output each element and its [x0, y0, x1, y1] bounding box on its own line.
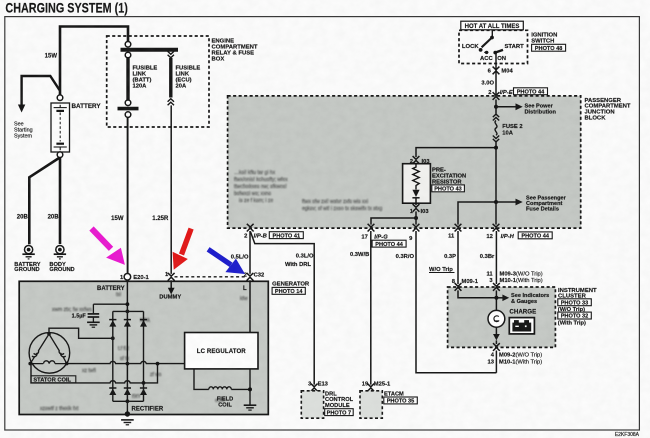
- charge warning lamp: [488, 310, 505, 327]
- label PHOTO 43: [432, 185, 465, 193]
- stator delta winding: [30, 334, 66, 364]
- pin 9: [413, 224, 420, 232]
- connector 2 C32: [247, 273, 254, 281]
- instrument cluster shaded panel: [448, 287, 556, 347]
- wire battery positive to fuse box (15W): [60, 27, 128, 96]
- diode D1 top col1: [109, 320, 116, 327]
- label PHOTO 7: [325, 409, 354, 417]
- dashed connector line between dummy pin and C32: [175, 276, 247, 278]
- wire fuse to lower node: [495, 142, 497, 202]
- rectifier top bus: [113, 310, 144, 312]
- battery top terminal circle: [57, 95, 63, 101]
- battery B1: [51, 103, 70, 152]
- label FUSE 2 10A: [502, 124, 522, 136]
- connector 19 M25-1: [367, 384, 374, 392]
- battery bottom terminal circle: [57, 152, 63, 158]
- connector 1 E20-1: [124, 274, 131, 281]
- wire 0.3R/O pin 9 to cluster return: [416, 231, 496, 373]
- label ENGINE COMPARTMENT RELAY & FUSE BOX: [212, 38, 258, 62]
- pin 11: [455, 224, 462, 232]
- ghost bleed-through text in generator panel: [40, 292, 248, 412]
- label INSTRUMENT CLUSTER: [558, 288, 597, 300]
- wire ignition switch output 3.0O: [495, 53, 497, 96]
- diode D3 top col3: [140, 320, 147, 327]
- rectifier column 3: [143, 311, 145, 401]
- pin 2 I/P-E entering junction block: [493, 92, 500, 100]
- stator coil circle: [29, 333, 70, 374]
- wire battery negative to body ground (20B): [59, 157, 62, 244]
- wire 0.3Br pin 12 to M09-3: [495, 231, 497, 284]
- ignition switch dashed box: [459, 30, 528, 63]
- ghost bleed-through text in junction block: [234, 109, 431, 212]
- capacitor C1 1.5uF: [88, 304, 100, 322]
- label See Power Distribution: [525, 104, 557, 116]
- lower terminal circle: [125, 112, 131, 118]
- field coil wires: [194, 369, 209, 390]
- terminal circle below bus bar: [125, 52, 131, 58]
- stator vertex nodes: [47, 332, 51, 336]
- label PHOTO 33: [558, 299, 592, 307]
- label PHOTO 14: [272, 287, 305, 295]
- ignition switch S1: [479, 30, 503, 55]
- node after fuse: [494, 146, 498, 150]
- fuse 2 holder bottom chevrons: [493, 136, 499, 139]
- rectifier bottom bus: [113, 400, 144, 402]
- wire resistor output node: [415, 211, 417, 224]
- wire lamp to output pin: [495, 327, 497, 335]
- label PRE-EXCITATION RESISTOR: [432, 167, 466, 185]
- label STATOR COIL boxed: [31, 376, 76, 383]
- generator shaded panel: [19, 281, 268, 414]
- node capacitor tap: [126, 302, 130, 306]
- magenta callout arrow: [92, 229, 125, 265]
- rectifier column 1: [112, 311, 114, 401]
- lamp filament: [494, 316, 499, 322]
- wire 1.25R to generator dummy pin: [170, 105, 172, 274]
- arrow see power distribution: [496, 106, 517, 108]
- phase B wire to col2 and regulator: [67, 361, 185, 363]
- fusible link (BATT) 120A: [126, 58, 129, 101]
- diode in resistor branch (pointing down): [412, 190, 419, 197]
- label PHOTO 35: [384, 397, 418, 405]
- body ground symbol: [54, 246, 66, 259]
- label BATTERY GROUND: [14, 262, 40, 273]
- dummy terminal arrow: [170, 280, 172, 288]
- label FUSIBLE LINK (BATT) 120A: [133, 66, 158, 90]
- battery warning icon: [509, 318, 534, 334]
- wire battery negative to battery ground (20B): [29, 158, 59, 244]
- label PHOTO 44 (I/P-G): [372, 240, 406, 248]
- label See Passenger Compartment Fuse Details: [526, 195, 567, 212]
- wire to I/P-G pin 17: [371, 218, 416, 225]
- HOT AT ALL TIMES box: [461, 21, 524, 30]
- label DRL CONTROL MODULE: [325, 391, 354, 409]
- battery ground symbol: [22, 246, 34, 259]
- connector 8 M09-1: [455, 283, 462, 291]
- wire 0.3P pin 11 to M09-1: [457, 231, 459, 284]
- label PHOTO 41: [269, 232, 303, 240]
- wire 0.3P inside cluster: [458, 290, 496, 297]
- generator box: [19, 281, 268, 414]
- fuse box terminal circle top: [125, 42, 131, 48]
- pin 12 I/P-H: [493, 224, 500, 232]
- dummy pin 1: [168, 273, 175, 281]
- label BODY GROUND: [49, 262, 74, 273]
- main feed wire inside block: [495, 100, 497, 114]
- pin 2 I/P-B: [247, 224, 254, 232]
- arrow see indicators and gauges: [496, 297, 503, 299]
- engine compartment relay and fuse box (dashed): [107, 36, 209, 127]
- wire to pre-excitation resistor: [416, 148, 496, 157]
- label PASSENGER COMPARTMENT JUNCTION BLOCK: [585, 98, 631, 121]
- connector 11/3 M09-3/M10-1: [493, 283, 500, 291]
- wire 0.3W/B I/P-G to ETACM: [370, 231, 372, 385]
- passenger compartment junction block shaded panel: [228, 96, 581, 228]
- connector 3 E13: [311, 384, 318, 392]
- pin 1 I03: [413, 204, 420, 212]
- label PHOTO 44 (I/P-E): [514, 88, 548, 96]
- label IGNITION SWITCH: [531, 33, 557, 45]
- wire to capacitor: [93, 303, 127, 305]
- label PHOTO 48: [532, 44, 566, 52]
- label FUSIBLE LINK (ECU) 20A: [176, 66, 201, 90]
- wire 0.5L/O I/P-B to C32: [249, 231, 251, 274]
- fusible link (ECU) 20A: [169, 58, 172, 98]
- wire 0.3Br into lamp: [495, 290, 497, 310]
- capacitor ground: [87, 322, 100, 327]
- wire 15W fusebox to connector E20-1: [127, 117, 129, 273]
- passenger compartment junction block dashed border: [228, 96, 581, 228]
- wire to pin 11: [458, 202, 496, 225]
- wire branch to starting system: [22, 76, 60, 106]
- DRL control module dashed box: [301, 391, 323, 418]
- terminal circle below link: [125, 100, 131, 106]
- field coil ground node: [248, 387, 252, 391]
- bus bar: [121, 48, 179, 52]
- resistor element: [413, 164, 419, 190]
- pin 2 I03: [413, 156, 420, 164]
- wire L terminal to LC regulator: [249, 280, 251, 332]
- connector 6 M04: [493, 67, 500, 75]
- red callout arrow: [173, 229, 192, 270]
- diode D4 bottom col1: [109, 388, 116, 395]
- label see starting system: [14, 122, 33, 140]
- wire battery terminal into generator (col2): [126, 280, 128, 401]
- label See Indicators & Gauges: [511, 293, 549, 305]
- lower terminal bar: [118, 107, 139, 111]
- fusible link ECU top chevrons: [168, 51, 174, 54]
- label PHOTO 44 (I/P-H): [518, 232, 552, 240]
- fuse 2 element: [495, 121, 497, 136]
- LC regulator box: [185, 333, 258, 369]
- rectifier ground stem: [126, 401, 128, 414]
- wire main to pin 12: [495, 202, 497, 225]
- field coil L1: [209, 387, 232, 390]
- wire 0.3L/O branch to DRL module: [250, 232, 314, 385]
- blue callout arrow: [208, 249, 245, 274]
- arrow see passenger compartment fuse details: [496, 201, 517, 203]
- label FIELD COIL: [217, 396, 233, 408]
- node before See Passenger arrow: [494, 200, 498, 204]
- diode D6 bottom col3: [140, 388, 147, 395]
- phase C wire to col3: [31, 364, 158, 383]
- fuse 2 holder top chevrons: [493, 114, 499, 117]
- wire cluster output down: [495, 351, 497, 373]
- node indicators tap: [494, 296, 498, 300]
- ETACM dashed box: [360, 391, 382, 418]
- fusible link ECU bottom chevrons: [168, 99, 174, 102]
- instrument cluster dashed box: [448, 287, 556, 347]
- arrowhead see starting system: [18, 105, 25, 113]
- pre-excitation resistor box: [403, 164, 431, 204]
- diode D2 top col2: [124, 320, 131, 327]
- phase A wire to col1: [49, 328, 113, 338]
- diode D5 bottom col2: [124, 388, 131, 395]
- label PHOTO 32: [558, 312, 592, 320]
- connector 4 M09-2 / 13 M10-1: [493, 343, 500, 351]
- node see power distribution: [494, 105, 498, 109]
- pin 17 I/P-G: [368, 224, 375, 232]
- diode arrow down inside cluster: [493, 334, 500, 340]
